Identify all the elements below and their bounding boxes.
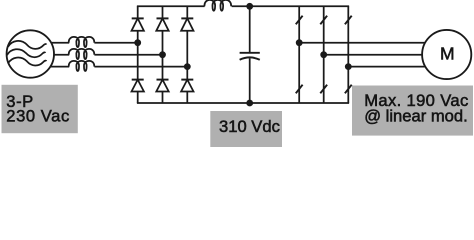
transistor switch Q3 upper leg 2 xyxy=(320,16,327,25)
inductor line choke L1 xyxy=(69,37,94,47)
junction node phase L3 / rectifier leg 3 xyxy=(184,63,191,70)
wire DC- rail xyxy=(137,102,349,104)
svg-text:310 Vdc: 310 Vdc xyxy=(219,117,280,136)
sine wave 3 of source xyxy=(8,58,46,66)
diode D6 lower leg 3 xyxy=(181,80,193,92)
wire motor phase U xyxy=(299,42,427,44)
inductor DC link choke xyxy=(204,0,231,11)
motor M1 xyxy=(422,30,471,79)
transistor switch Q5 upper leg 3 xyxy=(345,16,352,25)
wire DC+ rail right segment xyxy=(232,5,349,7)
diode D2 lower leg 1 xyxy=(132,80,144,92)
label box Max 190 Vac xyxy=(352,86,473,136)
capacitor C1 DC bus xyxy=(240,53,260,60)
transistor switch Q6 lower leg 3 xyxy=(345,85,352,94)
wire inverter leg 3 xyxy=(347,6,349,103)
transistor switch Q1 upper leg 1 xyxy=(296,16,303,25)
wire phase L1 source to line choke xyxy=(50,42,69,44)
junction node DC- / capacitor xyxy=(246,100,253,107)
label box 3-P 230 Vac xyxy=(2,85,78,133)
junction node inverter leg 2 output xyxy=(320,51,327,58)
junction node phase L1 / rectifier leg 1 xyxy=(134,39,141,46)
3-phase AC source G1 xyxy=(7,30,54,77)
wire DC link capacitor top lead xyxy=(249,6,251,52)
wire phase L3 source to line choke xyxy=(50,66,69,68)
transistor switch Q2 lower leg 1 xyxy=(296,85,303,94)
wire inverter leg 1 xyxy=(298,6,300,103)
label box 310 Vdc xyxy=(210,111,282,147)
wire DC link capacitor bottom lead xyxy=(249,58,251,103)
wire motor phase W xyxy=(348,66,427,68)
junction node phase L2 / rectifier leg 2 xyxy=(159,51,166,58)
wire DC+ rail left segment xyxy=(137,5,205,7)
diode D4 lower leg 2 xyxy=(156,80,168,92)
inductor line choke L3 xyxy=(69,61,94,71)
wire phase L2 source to line choke xyxy=(53,54,69,56)
wire phase L2 choke to rectifier leg 2 xyxy=(94,54,162,56)
transistor switch Q4 lower leg 2 xyxy=(320,85,327,94)
wire phase L3 choke to rectifier leg 3 xyxy=(94,66,187,68)
junction node inverter leg 3 output xyxy=(345,63,352,70)
wire rectifier leg 1 xyxy=(137,6,139,103)
svg-text:230 Vac: 230 Vac xyxy=(6,106,70,125)
sine wave 2 of source xyxy=(7,49,45,57)
junction node DC+ / capacitor xyxy=(246,3,253,10)
junction node inverter leg 1 output xyxy=(296,39,303,46)
diode D5 upper leg 3 xyxy=(181,18,193,30)
wire inverter leg 2 xyxy=(323,6,325,103)
svg-text:@ linear mod.: @ linear mod. xyxy=(364,107,468,126)
svg-text:M: M xyxy=(440,44,455,64)
diode D1 upper leg 1 xyxy=(132,18,144,30)
inductor line choke L2 xyxy=(69,49,94,59)
sine wave 1 of source xyxy=(8,41,46,49)
wire rectifier leg 3 xyxy=(186,6,188,103)
wire phase L1 choke to rectifier leg 1 xyxy=(94,42,137,44)
wire rectifier leg 2 xyxy=(162,6,164,103)
wire motor phase V xyxy=(324,54,428,56)
diode D3 upper leg 2 xyxy=(156,18,168,30)
